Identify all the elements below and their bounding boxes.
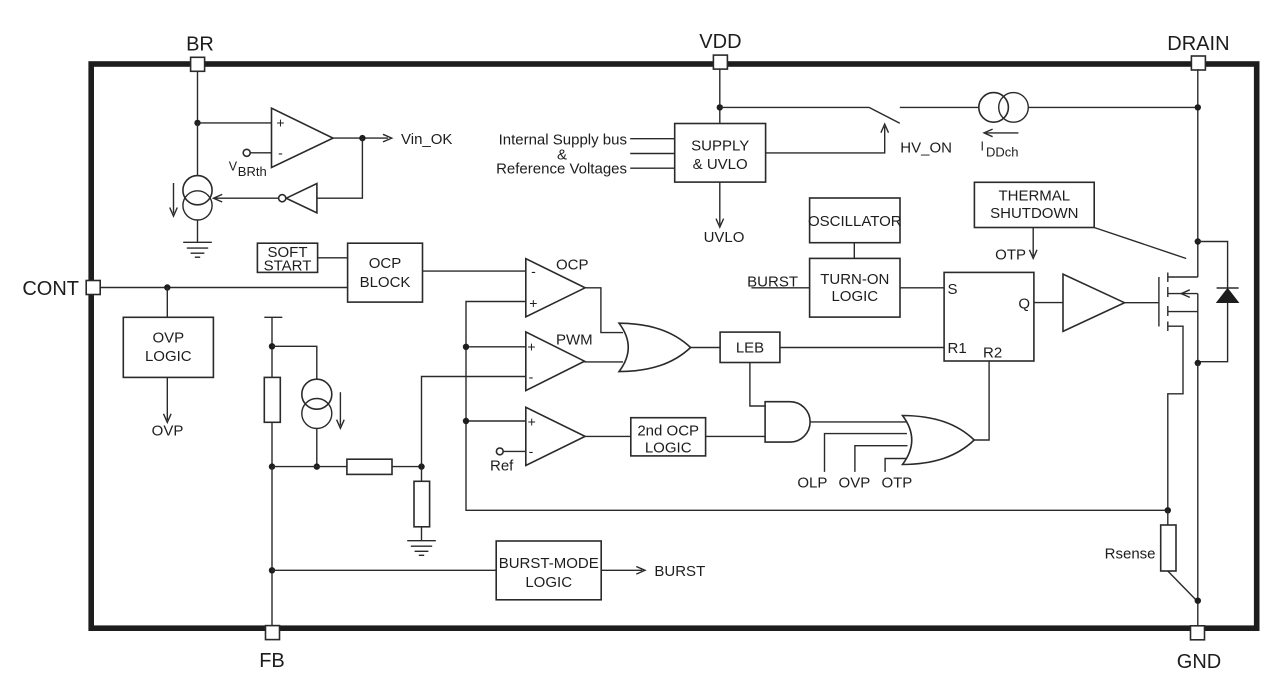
- svg-text:Reference Voltages: Reference Voltages: [496, 160, 627, 177]
- wire U1 output: [333, 137, 388, 139]
- wire HV_ON control from supply block: [766, 127, 885, 153]
- wire node to resistor R3: [421, 467, 423, 482]
- node Rsense-GND junction: [1195, 598, 1201, 604]
- wire 2nd OCP comparator to logic block: [585, 435, 631, 437]
- wire OCP BLOCK to OCP comparator - input: [423, 270, 526, 272]
- wire OR gate G3 to latch R2: [974, 361, 989, 440]
- svg-text:LOGIC: LOGIC: [645, 439, 692, 456]
- svg-text:-: -: [529, 443, 534, 459]
- node FB divider top junction: [269, 343, 275, 349]
- wire node to PWM - input: [422, 377, 526, 467]
- svg-text:-: -: [529, 368, 534, 384]
- ground (BR current source): [183, 242, 212, 257]
- resistor R3 FB ground leg: [414, 481, 430, 527]
- svg-text:THERMAL: THERMAL: [998, 188, 1070, 205]
- wire source to GND pin: [1197, 363, 1199, 626]
- svg-text:BRth: BRth: [238, 164, 267, 179]
- wire VDD node to switch: [720, 106, 869, 108]
- diode D1 body diode: [1198, 242, 1239, 362]
- op-amp 2nd OCP comparator: [526, 407, 585, 465]
- current source I1: [170, 176, 212, 220]
- wire switch to current source: [900, 106, 979, 108]
- wire CONT node to OVP LOGIC: [166, 288, 168, 318]
- OR gate G1: [619, 323, 691, 371]
- node OTP output arrow and label: [995, 228, 1037, 264]
- resistor R1 FB: [264, 377, 280, 422]
- svg-text:UVLO: UVLO: [704, 229, 745, 246]
- inverter U2: [279, 184, 317, 213]
- resistor Rsense: [1105, 525, 1176, 571]
- wire PWM output to OR gate: [585, 361, 624, 363]
- svg-text:GND: GND: [1177, 651, 1221, 673]
- wire R3 to ground: [421, 527, 423, 541]
- pin GND: [1177, 626, 1221, 673]
- svg-text:HV_ON: HV_ON: [900, 140, 952, 157]
- svg-text:TURN-ON: TURN-ON: [820, 271, 889, 288]
- svg-text:LOGIC: LOGIC: [831, 288, 878, 305]
- node OLP input stub and label: [797, 434, 907, 492]
- svg-text:I: I: [981, 140, 984, 154]
- node OTP input stub and label: [881, 459, 912, 492]
- wire current source to DRAIN rail: [1028, 106, 1198, 108]
- wire sense to 2nd OCP + input: [466, 420, 526, 422]
- svg-text:VDD: VDD: [699, 31, 741, 53]
- node internal supply bus inputs: [496, 132, 675, 178]
- block LEB: [720, 332, 780, 362]
- svg-text:Ref: Ref: [490, 457, 514, 474]
- node source-diode junction: [1195, 360, 1201, 366]
- wire VDD pin down to supply block: [719, 69, 721, 123]
- latch SR flip-flop: [944, 272, 1034, 361]
- wire driver to gate: [1125, 302, 1159, 304]
- node CONT branch: [164, 284, 170, 290]
- driver buffer: [1063, 274, 1125, 331]
- svg-text:BLOCK: BLOCK: [360, 274, 411, 291]
- node drain-diode junction: [1195, 238, 1201, 244]
- wire R1 to bottom rail: [271, 422, 273, 466]
- wire 2nd OCP logic to AND gate: [706, 435, 766, 437]
- svg-text:LOGIC: LOGIC: [525, 574, 572, 591]
- node UVLO output arrow and label: [704, 182, 745, 246]
- svg-text:START: START: [264, 258, 312, 275]
- svg-text:-: -: [531, 263, 536, 279]
- node BR sense: [194, 120, 200, 126]
- wire LEB to latch R1: [780, 347, 944, 349]
- svg-text:OVP: OVP: [152, 423, 184, 440]
- wire OR gate to LEB: [691, 347, 721, 349]
- wire LEB to AND gate: [750, 363, 765, 407]
- ground (FB divider): [407, 541, 436, 556]
- node sense-Rsense junction: [1165, 507, 1171, 513]
- wire FB node to burst-mode logic: [272, 569, 496, 571]
- node FB burst junction: [269, 567, 275, 573]
- svg-text:BURST-MODE: BURST-MODE: [499, 555, 599, 572]
- svg-text:+: +: [276, 115, 284, 131]
- wire Rsense to source rail: [1168, 571, 1197, 601]
- wire oscillator to turn-on logic: [853, 243, 855, 259]
- current source I2 FB: [302, 379, 344, 428]
- outer IC boundary: [91, 64, 1257, 628]
- node BURST output arrow and label: [601, 563, 705, 580]
- wire node to current source I1: [197, 123, 199, 176]
- wire BR pin to node: [197, 71, 199, 123]
- svg-text:Vin_OK: Vin_OK: [401, 131, 452, 148]
- svg-text:+: +: [527, 339, 535, 355]
- block THERMAL SHUTDOWN: [974, 182, 1094, 227]
- wire current source to bottom rail: [316, 429, 318, 467]
- svg-text:+: +: [528, 414, 536, 430]
- wire sense to PWM + input: [466, 346, 526, 348]
- svg-text:BR: BR: [186, 34, 214, 56]
- node VBRth input: [229, 149, 272, 179]
- block BURST-MODE LOGIC: [496, 541, 601, 600]
- block OSCILLATOR: [808, 198, 902, 243]
- wire node to comparator U1 + input: [198, 122, 272, 124]
- node drain-IDDch junction: [1195, 104, 1201, 110]
- svg-text:LEB: LEB: [736, 340, 764, 357]
- node U1 output junction: [359, 135, 365, 141]
- pin CONT: [22, 278, 100, 300]
- wire OCP output to OR gate: [585, 288, 623, 333]
- svg-text:OCP: OCP: [369, 255, 402, 272]
- svg-text:BURST: BURST: [654, 563, 705, 580]
- wire bottom rail to resistor R2: [272, 466, 347, 468]
- block SOFT START: [257, 243, 317, 274]
- svg-text:-: -: [278, 144, 283, 160]
- wire latch Q to driver: [1034, 302, 1063, 304]
- svg-text:OVP: OVP: [152, 330, 184, 347]
- pin VDD: [699, 31, 741, 69]
- svg-text:SUPPLY: SUPPLY: [691, 138, 749, 155]
- OR gate G3 reset: [903, 416, 975, 465]
- svg-text:OLP: OLP: [797, 475, 827, 492]
- node FB bottom mid junction: [314, 463, 320, 469]
- svg-text:S: S: [948, 281, 958, 298]
- op-amp OCP comparator: [526, 257, 589, 317]
- wire current-sense bus: [466, 302, 1168, 511]
- switch HV start-up: [869, 107, 900, 123]
- svg-text:2nd OCP: 2nd OCP: [637, 423, 699, 440]
- svg-text:+: +: [529, 295, 537, 311]
- svg-text:OSCILLATOR: OSCILLATOR: [808, 213, 902, 230]
- svg-text:CONT: CONT: [22, 278, 79, 300]
- svg-text:V: V: [229, 159, 238, 173]
- node sense PWM junction: [463, 344, 469, 350]
- pin BR: [186, 34, 214, 72]
- svg-text:OVP: OVP: [839, 475, 871, 492]
- block 2nd OCP LOGIC: [631, 418, 706, 457]
- block SUPPLY & UVLO: [675, 124, 766, 183]
- pin FB: [259, 626, 285, 672]
- wire FB node to current source I2: [272, 346, 317, 380]
- op-amp PWM comparator: [526, 332, 593, 391]
- wire AND gate to OR gate G3: [810, 421, 906, 423]
- wire SOFT START to OCP BLOCK: [318, 257, 348, 259]
- AND gate G2: [765, 402, 810, 442]
- node Ref input: [490, 448, 526, 474]
- svg-text:& UVLO: & UVLO: [693, 156, 748, 173]
- svg-text:FB: FB: [259, 650, 285, 672]
- svg-text:R2: R2: [983, 344, 1002, 361]
- pin DRAIN: [1167, 33, 1229, 70]
- svg-text:Rsense: Rsense: [1105, 546, 1156, 563]
- svg-text:OTP: OTP: [995, 247, 1026, 264]
- block TURN-ON LOGIC: [810, 258, 900, 317]
- node Vin_OK arrow and label: [383, 131, 452, 148]
- node OVP output arrow and label: [152, 377, 184, 439]
- svg-text:DDch: DDch: [986, 144, 1019, 159]
- svg-text:PWM: PWM: [556, 332, 593, 349]
- wire turn-on logic to latch S: [900, 287, 944, 289]
- node VDD junction: [717, 104, 723, 110]
- wire sense node to Rsense: [1167, 510, 1169, 525]
- block OCP BLOCK: [348, 243, 423, 302]
- node FB bottom left junction: [269, 463, 275, 469]
- node PWM feedback junction: [418, 463, 424, 469]
- current source IDDch: [979, 93, 1029, 160]
- wire resistor R2 to PWM node: [392, 466, 422, 468]
- block OVP LOGIC: [123, 317, 213, 377]
- node OVP input stub and label: [839, 446, 908, 492]
- wire thermal shutdown pointer: [1094, 228, 1186, 259]
- wire DRAIN rail: [1197, 69, 1199, 277]
- wire U1 output to inverter: [317, 138, 363, 198]
- svg-text:DRAIN: DRAIN: [1167, 33, 1229, 55]
- wire inverter to current source control arrow: [214, 194, 279, 202]
- svg-text:SHUTDOWN: SHUTDOWN: [990, 205, 1078, 222]
- wire current source to ground: [197, 220, 199, 242]
- svg-text:Q: Q: [1018, 295, 1030, 312]
- transistor M1 power MOSFET: [1159, 273, 1198, 512]
- svg-text:OCP: OCP: [556, 257, 589, 274]
- node sense 2nd OCP junction: [463, 418, 469, 424]
- wire CONT to OCP BLOCK: [100, 287, 347, 289]
- node FB supply tap: [264, 317, 282, 377]
- node BURST input label and wire: [747, 274, 809, 291]
- resistor R2 FB horizontal: [347, 459, 392, 474]
- svg-text:LOGIC: LOGIC: [145, 348, 192, 365]
- svg-text:OTP: OTP: [881, 475, 912, 492]
- op-amp U1 brown-out comparator: [272, 108, 334, 167]
- wire FB pin rail: [271, 467, 273, 626]
- svg-text:R1: R1: [948, 340, 967, 357]
- node HV_ON arrow and label: [881, 124, 952, 157]
